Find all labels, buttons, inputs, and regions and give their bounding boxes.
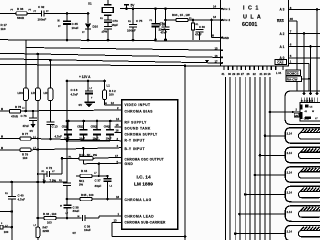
svg-text:47nF: 47nF [23,124,30,128]
svg-text:R45 , 100: R45 , 100 [81,193,94,197]
wire ULA GND stub [212,37,221,39]
svg-text:SOUND TANK: SOUND TANK [125,127,151,131]
svg-text:1k0: 1k0 [23,156,28,160]
resistor R77 [20,137,31,140]
wire R43 to pin17 [93,157,122,158]
resistor R48 [3,226,12,228]
pin 3 wire R-Y INPUT [31,139,122,141]
capacitor C30 [196,29,204,31]
node D10 bottom on gnd rail [87,39,90,42]
wire C30 bottom [199,32,201,40]
node C35 top [66,12,69,15]
svg-text:C52(2: C52(2 [77,127,84,129]
wire R36 to C32 [27,13,41,15]
address bus vertical A2 [303,34,305,94]
svg-text:27: 27 [241,72,244,76]
RAM chip 2 pin hatching [300,129,305,134]
RAM chip 6 pin hatching [300,207,305,212]
node rail E tap x185 [184,64,187,67]
address bus vertical RAS [296,21,298,91]
wire UR1 drop [37,54,39,88]
arrow on pin17 wire [205,60,209,63]
svg-text:B-Y INPUT: B-Y INPUT [125,147,145,151]
svg-text:10uF: 10uF [84,228,91,232]
svg-text:2.14: 2.14 [287,210,293,214]
svg-text:47uF: 47uF [195,33,202,37]
node C30 box left [192,19,195,22]
RAM chip 5 pin hatching [300,188,305,193]
svg-text:M: M [1,136,3,139]
resistor UR2 [48,88,53,101]
svg-text:RA·CW: RA·CW [287,78,298,82]
svg-text:16: 16 [215,54,219,58]
wire data to chip1 [270,111,300,113]
svg-text:4.7nF: 4.7nF [55,135,63,139]
capacitor C41 [63,182,71,184]
wire R42 top [104,81,106,90]
node A3 bus [316,8,319,11]
node chip1 entry c [316,92,319,95]
data bus line D5 [249,77,251,240]
svg-text:R 44: R 44 [81,169,87,173]
wire C32 to D10 node [44,13,88,15]
wire data to chip7 [235,233,285,235]
svg-text:0V: 0V [30,129,34,133]
data bus line D8 [264,77,266,240]
svg-text:100: 100 [4,230,9,234]
svg-text:M: M [1,108,3,111]
wire C35 top [66,14,68,22]
capacitor C76 [29,117,37,119]
wire corner x44 [43,174,45,182]
svg-text:CHROMA LEAD: CHROMA LEAD [125,214,155,218]
svg-text:M: M [1,147,3,150]
node C30 box right [210,19,213,22]
pin 14 wire RF SUPPLY [67,120,122,122]
ULA bottom pin ticks [223,66,225,70]
svg-text:1k0: 1k0 [1,27,6,31]
resistor R46 [44,216,56,219]
node C48 on +12V [66,80,69,83]
svg-text:D10: D10 [93,25,99,29]
wire data to chip6 [240,213,286,215]
svg-text:2%: 2% [79,183,84,187]
svg-text:±5%: ±5% [102,30,108,34]
pin 2 wire CHROMA BIAS [34,109,122,112]
wire C30 loop left [192,20,194,40]
power rail +5V to ULA pin 14 [120,8,221,10]
svg-text:13: 13 [213,15,217,19]
wire C75 bottom [132,27,134,40]
wire C38 to R46 row [66,209,68,218]
wire R45 left [67,198,80,200]
node cap C52 tap [82,120,85,123]
svg-text:220R: 220R [43,229,50,233]
svg-text:C 32: C 32 [38,5,45,9]
node cap C51 tap [67,120,70,123]
capacitor C73 [104,19,112,21]
node A2 bus [303,32,306,35]
address bus vertical A1 [310,47,312,94]
svg-text:C54(2: C54(2 [104,126,111,129]
svg-text:C 72: C 72 [46,166,52,170]
data bus line D6 [254,77,256,240]
pin 5 wire GND [83,162,121,165]
node chip1 entry a [303,92,306,95]
RAM chip IC6 outline [285,91,320,125]
wire R78 row [0,110,34,112]
IC1 ULA outline [221,0,289,66]
resistor UR3 [23,88,28,101]
svg-text:A 1: A 1 [280,45,285,49]
svg-text:+ 12V A: + 12V A [79,75,91,79]
svg-text:18: 18 [268,72,271,76]
svg-text:17: 17 [115,154,119,158]
wire R45 to pin18 [92,198,122,200]
node cap C54 tap [109,120,112,123]
node chip5 data tap [244,193,247,196]
capacitor C52 [83,121,85,130]
svg-text:17: 17 [215,59,219,63]
svg-text:I.C. 14: I.C. 14 [137,175,151,181]
svg-text:13: 13 [114,219,118,223]
svg-text:RAS: RAS [277,19,284,23]
wire C37 bottom [107,181,109,199]
power rail +12V [67,80,105,82]
wire R34 to ULA pin 13 [188,19,221,21]
capacitor C40 [8,196,16,198]
resistor R36 [16,12,27,15]
node A1 bus [309,45,312,48]
wire top-left horizontal to R36 [0,13,16,15]
node D10 top [87,12,90,15]
node L1 on +12V [87,80,90,83]
svg-text:RF SUPPLY: RF SUPPLY [125,121,148,125]
svg-text:I C 1: I C 1 [243,6,259,12]
svg-text:LM 1889: LM 1889 [134,181,153,187]
node R78 UR3 [25,110,28,113]
wire C40 drop [11,182,13,196]
wire C39 row left [56,217,82,219]
svg-text:R 78: R 78 [15,105,21,109]
svg-text:16: 16 [116,128,120,132]
wire C72 right [50,173,63,175]
svg-text:Vcc 2: Vcc 2 [223,18,231,22]
svg-text:R 46 , 1k0: R 46 , 1k0 [43,212,57,216]
RAM chip 6 body [299,211,320,217]
node chip1 entry b [309,92,312,95]
svg-text:CHROMA BIAS: CHROMA BIAS [125,110,154,114]
svg-text:GND: GND [125,162,134,166]
RAM chip 7 pin hatching [300,227,305,232]
svg-text:CAS: CAS [277,61,283,65]
svg-text:VIDEO INPUT: VIDEO INPUT [125,103,151,107]
RAM chip 7 outline [285,225,320,240]
RAM chip 2 outline [285,128,320,144]
svg-text:X1: X1 [88,2,92,6]
wire UR2 bottom [49,101,51,122]
svg-text:14: 14 [116,117,120,121]
svg-text:2.14: 2.14 [287,171,293,175]
node y182 ur1 [37,181,40,184]
capacitor C13 [46,121,54,123]
crystal X1 [107,0,109,5]
rail B corner [25,40,27,47]
svg-text:GND: GND [223,36,229,40]
svg-text:LR3: LR3 [18,91,24,95]
capacitor C53 [96,121,98,130]
wire R47 bottom [37,238,39,240]
RAM chip IC6 internals [301,105,303,110]
svg-text:C 37: C 37 [95,179,101,183]
wire data to chip2 [265,135,285,137]
svg-text:U L A: U L A [243,15,262,21]
box RAS-CAS [286,76,302,81]
RAM chip 3 body [299,152,320,158]
svg-text:L 34: L 34 [276,71,282,75]
svg-text:49: 49 [211,34,215,38]
capacitor C37 [104,178,112,180]
wire y215 left [0,211,12,213]
svg-text:R-Y INPUT: R-Y INPUT [125,139,145,143]
RAM chip 5 outline [285,186,320,202]
svg-text:28: 28 [237,72,240,76]
svg-text:33uF: 33uF [73,209,80,213]
capacitor C72 [46,171,48,177]
capacitor C51 [67,121,69,130]
svg-text:C 76: C 76 [21,114,27,118]
wire UR1 bottom [37,101,39,182]
capacitor C39 [81,215,83,221]
svg-text:31: 31 [222,72,225,76]
RAM chip 7 body [299,230,320,236]
data bus line D2 [234,77,236,240]
svg-text:CHROMA SUB-CARRIER: CHROMA SUB-CARRIER [125,220,167,224]
node chip2 data tap [264,135,267,138]
rail E to ULA corner [0,65,221,67]
wire R47 top [37,218,39,227]
svg-text:560R: 560R [17,16,25,20]
svg-text:21: 21 [260,72,263,76]
wire C72 row left [38,173,47,175]
svg-text:100: 100 [109,93,114,97]
svg-text:47nF: 47nF [161,31,168,35]
svg-text:4.7nF: 4.7nF [18,198,26,202]
node chip7 data tap [234,232,237,235]
data bus line D7 [259,77,261,240]
wire C40 bottom [11,199,13,240]
wire ur1 to r46 [37,182,39,218]
RAM chip 4 pin hatching [300,168,305,173]
wire D10 top [87,14,89,24]
node chip4 data tap [254,174,257,177]
RAM chip 3 outline [285,147,320,163]
svg-text:3 1 5 1 0 1 2 B: 3 1 5 1 0 1 2 B [301,100,314,102]
capacitor C74 [162,26,170,28]
resistor R42 [103,90,107,100]
wire C48 drop [66,81,68,183]
svg-text:R34 , 15 , 1W: R34 , 15 , 1W [172,13,190,17]
pin 16 stub CHROMA SUPPLY [115,131,122,133]
svg-text:470R: 470R [11,114,19,118]
svg-text:15: 15 [116,123,120,127]
node cap C53 tap [96,120,99,123]
capacitor C75 [129,23,137,25]
svg-text:0V: 0V [73,231,77,235]
wire D10 bottom [87,29,89,40]
resistor R33 [192,23,195,30]
node chip1 data tap [269,111,272,114]
node C35 bottom on gnd rail [66,39,69,42]
node chip6 data tap [238,213,241,216]
diode D10 [85,24,91,30]
node rail D tap [49,59,52,62]
wire R79 right segment [31,149,62,151]
svg-text:18: 18 [116,195,120,199]
svg-text:10uF: 10uF [72,26,79,30]
svg-text:100nF: 100nF [127,29,136,33]
resistor R79 [20,148,31,151]
wire C37 top [107,176,109,179]
pin 4 wire B-Y INPUT [31,148,122,150]
svg-text:C51(2: C51(2 [62,127,69,129]
wire x62 vertical [61,158,63,174]
RAM chip 3 pin hatching [300,148,305,153]
svg-text:M: M [58,20,60,23]
node rf wire left [66,120,69,123]
node rail C tap [37,53,40,56]
wire data to chip5 [245,193,285,195]
capacitor C54 [109,121,111,130]
svg-text:22: 22 [253,72,256,76]
pin 15 stub SOUND TANK [115,126,122,128]
wire data to chip4 [255,174,285,176]
wire R46 left [38,217,44,219]
capacitor C32 [41,10,43,16]
svg-text:C 13: C 13 [52,125,58,129]
wire data to chip3 [260,154,285,156]
wire R77 right [31,138,38,140]
svg-text:CHROMA SUPPLY: CHROMA SUPPLY [125,133,159,137]
wire vertical B-Y to GND [82,148,84,163]
wire C26 top [155,9,157,24]
node y182 c40 [11,181,14,184]
wire caps common bottom [67,140,110,142]
wire C73 mid [107,22,109,26]
svg-text:L1: L1 [107,84,111,88]
RAM chip IC6 inner box [300,103,320,121]
wire RAS-CAS join [302,78,310,80]
wire C39 to pin1 [85,217,99,219]
resistor R43 [79,157,93,160]
svg-text:16pF: 16pF [112,23,119,27]
svg-text:Vcc 1: Vcc 1 [223,7,231,11]
capacitor C73b [104,26,112,28]
svg-text:C53(2: C53(2 [91,127,98,129]
svg-text:6C001: 6C001 [242,22,257,28]
svg-text:14: 14 [213,5,217,9]
svg-text:12: 12 [111,101,115,105]
rail B to ULA pin 15 [26,48,221,51]
node R34 left junction [164,19,167,22]
ground arrow C76 [32,121,34,124]
wire C30 loop right [211,20,213,38]
resistor UR1 [35,88,40,101]
wire R44 right [92,175,108,177]
capacitor C26 [152,23,160,25]
wire chroma bottom [112,236,185,238]
wire chroma vertical x185 [184,66,186,240]
svg-text:ROMCS: ROMCS [287,71,299,75]
box ROMCS [286,70,301,76]
node R42 on +12V [103,80,106,83]
resistor R44 [80,174,92,177]
resistor R45 [80,197,92,200]
svg-text:C74: C74 [160,22,166,26]
power symbol +5V [124,4,129,6]
svg-text:R 77: R 77 [22,132,28,136]
resistor R34 [176,18,188,21]
svg-text:26: 26 [247,72,250,76]
wire C26 bottom [155,27,157,39]
wire C76 drop [32,111,34,118]
data bus line D4 [244,77,246,240]
capacitor C35 [63,20,71,22]
svg-text:15: 15 [215,47,219,51]
pin 13 wire CHROMA SUBCARRIER [112,221,122,223]
RAM chip 6 outline [285,206,320,222]
svg-text:2.14: 2.14 [287,190,293,194]
RAM chip 2 body [299,133,320,139]
svg-text:29: 29 [232,72,235,76]
svg-text:103: 103 [47,221,52,225]
RAM chip IC6 pin label box [294,113,299,117]
RAM chip 5 body [299,191,320,197]
wire +5V down to R34 row [165,9,167,27]
wire vertical GND to R44 [98,164,100,176]
wire C75 top [132,9,134,24]
wire UR3 drop [25,48,27,89]
wire to R34 [166,19,177,21]
RAM chip 4 body [299,172,320,178]
op-amp IC14 LM1889 box [122,100,178,230]
wire y182 row [0,181,67,183]
data bus line D0 [225,77,227,240]
rail D to ULA pin 17 [0,59,221,63]
node C75 on +5V [132,7,135,10]
svg-text:M: M [78,216,80,218]
svg-text:30: 30 [228,72,231,76]
svg-text:R 36: R 36 [17,7,24,11]
svg-text:100nF: 100nF [38,18,47,22]
node R34 branch on +5V [164,7,167,10]
wire R42 to pin12 [104,100,106,106]
svg-text:2.14: 2.14 [287,229,293,233]
RAM chip IC6 top pin ticks [301,98,303,103]
wire UR2 drop [49,60,51,88]
wire pin13 down [111,222,113,236]
svg-text:2.14: 2.14 [287,132,293,136]
data bus line D9 [269,77,271,240]
data bus line D3 [239,77,241,240]
rail C to ULA pin 16 [0,53,221,57]
svg-text:A 3: A 3 [280,8,285,12]
wire C13 bottom [49,125,51,140]
svg-text:CHROMA LAG: CHROMA LAG [125,198,152,202]
svg-text:33pF: 33pF [95,184,102,188]
capacitor C49 [87,81,89,91]
address bus vertical A3 [316,10,318,94]
